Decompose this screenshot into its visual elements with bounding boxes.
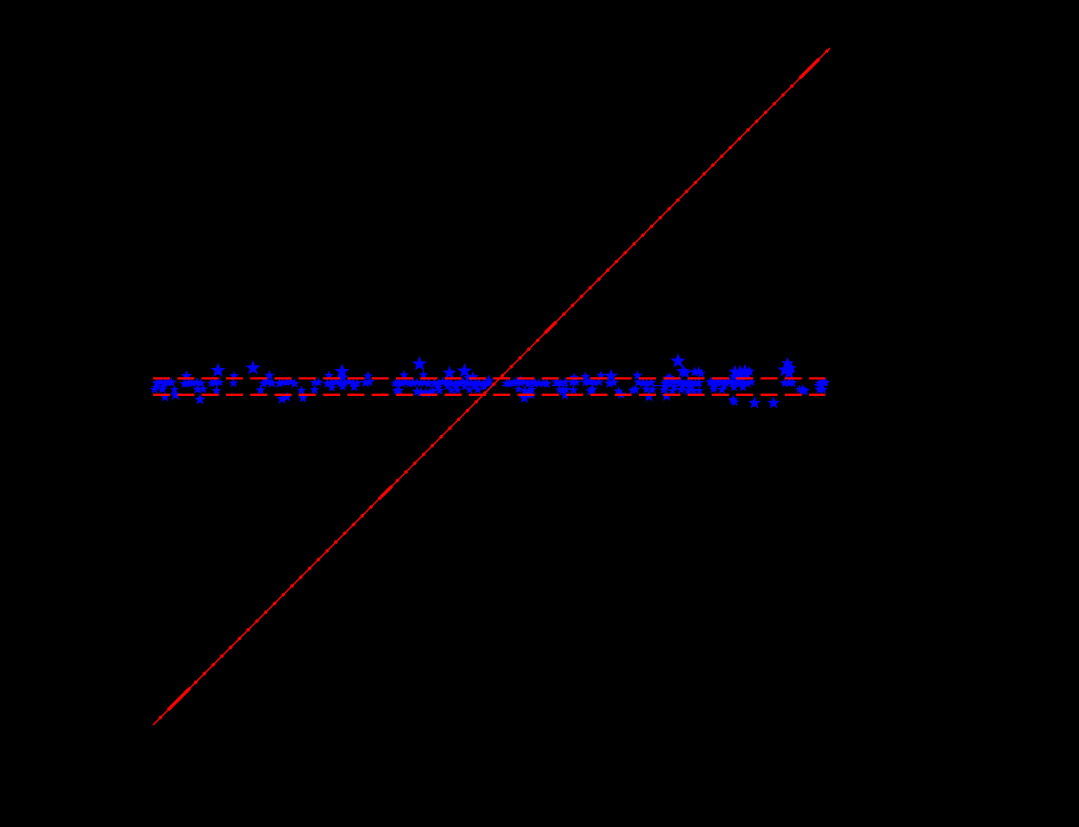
blue star-arm thin segment 2 — [552, 384, 568, 386]
blue star-arm thin segment 3 — [654, 385, 702, 387]
blue star data series: upper dense row — [153, 377, 828, 387]
blue star data series: lower dense row — [151, 385, 824, 395]
blue star data series: accent and outlier stars — [161, 355, 830, 408]
upper bound dashed red line — [153, 377, 825, 379]
reference line thick segment 2 — [381, 486, 392, 497]
blue star-arm thin segment 4 — [814, 384, 828, 386]
blue star-arm thin segment 5 — [392, 384, 400, 386]
reference line thick segment 3 — [545, 322, 556, 333]
reference line y=x dashed overlay (thick red dashes) — [153, 48, 830, 725]
lower bound dashed red line — [153, 394, 825, 396]
reference line y=x (thin solid red) — [153, 48, 830, 725]
blue star-arm thin segment 1 — [502, 384, 516, 386]
reference line thick segment 1 — [168, 688, 190, 710]
reference line thick segment 4 — [800, 60, 818, 78]
blue star data series: mid connector stars — [152, 382, 747, 391]
